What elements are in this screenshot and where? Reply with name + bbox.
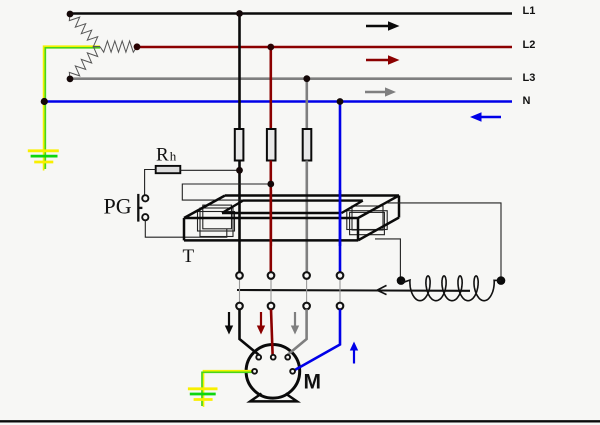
wire L1 drop (black) upper (238, 14, 241, 131)
arrow L3 direction (365, 87, 396, 96)
wire node L2 to test winding (182, 184, 270, 200)
contactor bar arrowhead (pointing left) (377, 285, 387, 294)
arrow L1 direction (366, 21, 400, 31)
fuse F1 (235, 129, 244, 161)
wire secondary bottom to trip coil left (375, 239, 400, 277)
node on L2 drop (267, 181, 274, 188)
wire Rh left down to switch (145, 170, 156, 196)
node L3 left (zigzag tap) (67, 76, 74, 83)
svg-text:L1: L1 (523, 5, 536, 17)
wire L1 drop lower (238, 161, 241, 273)
motor terminal 2 (271, 355, 276, 360)
current arrow gray (down) (291, 312, 299, 335)
node L2 left (zigzag tap) (134, 43, 141, 50)
svg-text:h: h (170, 149, 177, 164)
current arrow black (down) (225, 312, 233, 335)
wire secondary top to trip coil right (387, 203, 501, 277)
node L3 at drop (303, 75, 310, 82)
resistor Rh body (156, 166, 181, 173)
motor M body (246, 345, 300, 399)
transformer T core inner hole rim (222, 201, 363, 213)
wire L3 drop (gray) upper (305, 79, 308, 130)
contact pole3 lower circle (303, 303, 310, 310)
motor terminal 1 (256, 355, 261, 360)
transformer T core outer box (184, 196, 399, 241)
node L2 at drop (267, 44, 274, 51)
svg-text:N: N (523, 95, 531, 107)
contact pole3 link (306, 277, 308, 304)
svg-text:L2: L2 (523, 39, 536, 51)
node L1 at drop (236, 10, 243, 17)
test winding W3 (200, 208, 233, 237)
line L3 (70, 77, 512, 80)
secondary winding R1 (347, 211, 387, 230)
wire PG lower to test winding (145, 220, 227, 237)
line L1 (70, 12, 512, 15)
PE wire to motor green stripe (202, 372, 252, 406)
arrow N direction (leftwards) (470, 112, 501, 122)
wire pole2 to motor (dark red) (271, 309, 273, 354)
wire L2 drop over core (269, 190, 272, 246)
contactor actuating bar (237, 289, 470, 292)
switch PG upper contact (142, 195, 148, 201)
motor terminal 3 (285, 355, 290, 360)
wire L3 drop lower (305, 161, 308, 273)
contact pole2 upper circle (268, 272, 275, 279)
switch PG pushbutton actuator (138, 194, 142, 222)
wire pole1 to motor (black) (240, 309, 259, 355)
wire L2 drop lower (269, 161, 272, 273)
contact pole1 upper circle (236, 272, 243, 279)
wire L2 drop (dark red) upper (269, 47, 272, 130)
motor ground bar2 (190, 393, 216, 396)
svg-text:L3: L3 (523, 72, 536, 84)
node L1 left (zigzag tap) (67, 11, 74, 18)
trip coil left node (397, 276, 406, 285)
node N at PE bond (41, 98, 48, 105)
svg-text:M: M (304, 371, 322, 394)
bottom border line (0, 420, 600, 422)
contact pole2 lower circle (268, 303, 275, 310)
ground symbol (earth, top-left) bar1 (28, 149, 59, 152)
line N (44, 100, 512, 103)
svg-text:PG: PG (104, 194, 132, 219)
trip coil right node (497, 276, 506, 285)
resistor zigzag L1-to-PE (69, 14, 100, 47)
wire N drop over core (339, 190, 342, 246)
motor terminal 4 (PE) (252, 369, 257, 374)
test winding W1 (198, 212, 235, 232)
contact pole2 link (270, 277, 272, 304)
contact pole4 upper circle (337, 272, 344, 279)
PE wire green stripe (45, 48, 100, 169)
contact pole4 link (339, 277, 341, 304)
contact pole1 lower circle (236, 303, 243, 310)
ground bar2 (31, 155, 58, 158)
trip coil (solenoid) (401, 276, 501, 301)
fuse F3 (303, 129, 312, 161)
svg-text:T: T (183, 246, 195, 267)
current arrow dark red (down) (257, 312, 265, 335)
contact pole1 link (239, 277, 241, 304)
node N at drop (337, 98, 344, 105)
contact pole3 upper circle (303, 272, 310, 279)
motor ground bar3 (194, 398, 213, 401)
secondary winding R2 (350, 212, 385, 234)
secondary winding R3 (352, 206, 383, 230)
node on L1 drop at Rh (236, 167, 243, 174)
PE wire yellow stripe (top run + vertical to ground) (44, 46, 100, 170)
PE wire to motor yellow stripe (204, 371, 253, 407)
svg-text:R: R (156, 145, 169, 166)
wire pole4 to motor (blue) (293, 309, 340, 371)
contact pole4 lower circle (337, 303, 344, 310)
ground bar3 (34, 161, 53, 164)
line L2 (137, 46, 512, 49)
current arrow blue (up) (350, 342, 358, 364)
test winding W2 (203, 205, 232, 229)
wire pole3 to motor (gray) (288, 309, 307, 355)
switch PG lower contact (142, 214, 148, 220)
wire Rh right to node (180, 169, 239, 171)
motor ground bar1 (188, 387, 218, 390)
arrow L2 direction (366, 55, 400, 65)
wire N drop (blue) (339, 102, 342, 273)
resistor zigzag L3-to-PE (69, 46, 100, 79)
fuse F2 (267, 129, 276, 161)
motor base stand (250, 394, 297, 402)
motor terminal 5 (N) (290, 369, 295, 374)
resistor zigzag PE-to-L2 (100, 41, 137, 52)
